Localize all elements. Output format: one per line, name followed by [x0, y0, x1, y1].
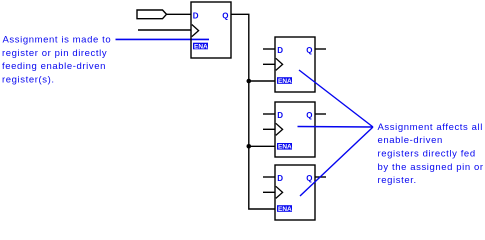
- U2 clock stub: [263, 63, 275, 65]
- svg-text:Q: Q: [306, 46, 312, 55]
- svg-text:Q: Q: [306, 111, 312, 120]
- U2 Q output stub: [315, 48, 326, 50]
- svg-text:by the assigned pin or: by the assigned pin or: [378, 162, 484, 173]
- callout line to U2: [299, 70, 373, 127]
- callout line from left text to ENA of U1: [116, 38, 210, 40]
- U3 clock stub: [263, 128, 275, 130]
- svg-text:Assignment affects all: Assignment affects all: [378, 122, 483, 133]
- svg-text:D: D: [277, 46, 283, 55]
- junction dot at U2 ENA: [247, 79, 252, 84]
- U4 D input stub: [263, 176, 275, 178]
- input pin symbol: [137, 10, 167, 19]
- junction dot at U3 ENA: [247, 144, 252, 149]
- svg-text:ENA: ENA: [278, 206, 292, 213]
- svg-text:ENA: ENA: [278, 78, 292, 85]
- svg-text:enable-driven: enable-driven: [378, 135, 443, 146]
- register U3 box: [275, 102, 315, 157]
- svg-text:Q: Q: [306, 174, 312, 183]
- wire trunk to ENA of U2: [249, 80, 275, 82]
- annotation text right: [378, 122, 484, 186]
- svg-text:feeding enable-driven: feeding enable-driven: [2, 61, 106, 72]
- svg-text:register(s).: register(s).: [2, 74, 55, 85]
- U4 clock triangle: [276, 186, 283, 198]
- U3 D input stub: [263, 113, 275, 115]
- svg-text:Q: Q: [222, 12, 228, 21]
- svg-text:register.: register.: [378, 175, 417, 186]
- U2 ENA highlight: [277, 77, 292, 84]
- register U1 box: [191, 2, 231, 58]
- U4 ENA highlight: [277, 205, 292, 212]
- wire pin to D of U1: [167, 13, 192, 15]
- callout line to U4: [300, 127, 373, 196]
- svg-text:register or pin directly: register or pin directly: [2, 48, 107, 59]
- U4 Q output stub: [315, 176, 326, 178]
- U1 ENA highlight: [193, 43, 208, 50]
- wire clock input of U1: [138, 29, 191, 31]
- U2 D input stub: [263, 48, 275, 50]
- svg-text:Assignment is made to: Assignment is made to: [3, 35, 112, 46]
- callout line to U3: [298, 126, 374, 129]
- svg-text:D: D: [277, 111, 283, 120]
- svg-text:registers directly fed: registers directly fed: [378, 149, 476, 160]
- svg-text:D: D: [277, 174, 283, 183]
- U3 clock triangle: [276, 123, 283, 135]
- wire Q of U1 to trunk: [231, 14, 275, 209]
- U2 clock triangle: [276, 58, 283, 70]
- U3 ENA highlight: [277, 143, 292, 150]
- U3 Q output stub: [315, 113, 326, 115]
- svg-text:ENA: ENA: [278, 144, 292, 151]
- svg-text:ENA: ENA: [194, 43, 208, 50]
- U1 clock triangle: [192, 25, 199, 37]
- annotation text left: [2, 35, 111, 86]
- register U4 box: [275, 165, 315, 220]
- svg-text:D: D: [193, 12, 199, 21]
- wire trunk to ENA of U3: [249, 145, 275, 147]
- U4 clock stub: [263, 191, 275, 193]
- register U2 box: [275, 37, 315, 92]
